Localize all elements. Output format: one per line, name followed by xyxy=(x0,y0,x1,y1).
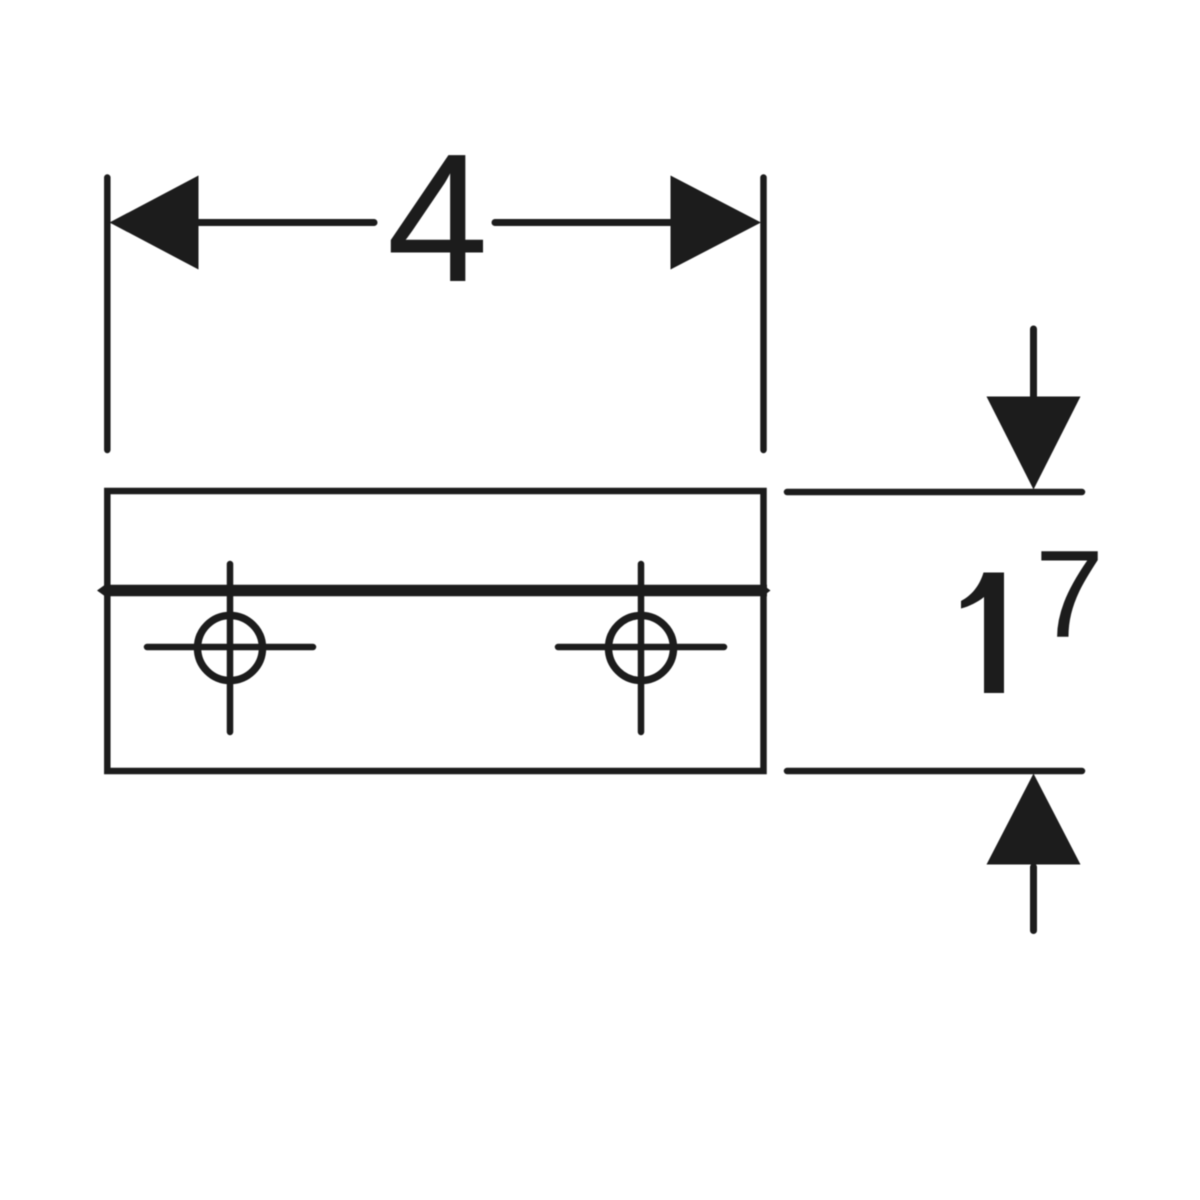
centerline horizontal right hole xyxy=(558,644,724,651)
extension line left (width dim) xyxy=(104,178,111,451)
arrowhead up xyxy=(987,774,1081,865)
centerline vertical right hole xyxy=(638,564,645,732)
centerline vertical left hole xyxy=(227,564,234,732)
hole circle left xyxy=(198,616,263,681)
edge line left point xyxy=(97,584,106,597)
extension line right (width dim) xyxy=(760,178,767,451)
arrowhead down xyxy=(987,397,1081,490)
svg-text:7: 7 xyxy=(1035,526,1104,664)
dimension label 1 xyxy=(961,573,1004,694)
arrowhead left xyxy=(110,176,199,270)
edge line right point xyxy=(762,584,771,597)
extension line bottom (height dim) xyxy=(787,768,1082,775)
centerline horizontal left hole xyxy=(147,644,313,651)
edge line thick xyxy=(104,585,767,597)
arrowhead right xyxy=(671,176,762,270)
part outline rectangle xyxy=(107,491,763,771)
dimension line upper segment xyxy=(1030,329,1037,400)
dimension line left segment xyxy=(195,219,374,226)
extension line top (height dim) xyxy=(787,489,1082,496)
svg-text:4: 4 xyxy=(387,115,489,320)
dimension line right segment xyxy=(495,219,673,226)
hole circle right xyxy=(609,616,674,681)
dimension line lower segment xyxy=(1030,867,1037,931)
